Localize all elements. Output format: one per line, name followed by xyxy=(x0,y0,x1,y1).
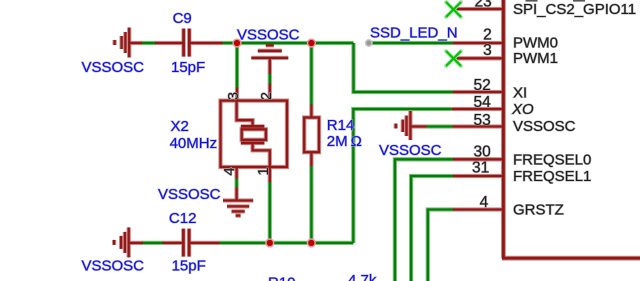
node junction crystal pin1 bottom (269.8,242.9) xyxy=(266,239,274,247)
svg-text:2M Ω: 2M Ω xyxy=(327,133,362,150)
svg-text:PWM0: PWM0 xyxy=(513,35,558,52)
svg-text:VSSOSC: VSSOSC xyxy=(82,59,145,76)
node junction R14 bottom (311.3,242.9) xyxy=(307,239,315,247)
svg-text:C9: C9 xyxy=(173,10,192,27)
no-connect X pin 23 xyxy=(446,2,461,17)
svg-text:4: 4 xyxy=(221,167,238,175)
svg-text:VSSOSC: VSSOSC xyxy=(82,258,145,275)
svg-text:1: 1 xyxy=(255,167,272,175)
svg-text:54: 54 xyxy=(474,94,492,111)
svg-text:30: 30 xyxy=(474,144,492,161)
svg-text:SSD_LED_N: SSD_LED_N xyxy=(370,25,458,42)
svg-text:R10: R10 xyxy=(268,274,296,281)
svg-text:15pF: 15pF xyxy=(172,258,206,275)
pin name above pin 23, cut off at top: visible underscore marks xyxy=(526,0,538,2)
svg-text:40MHz: 40MHz xyxy=(170,135,218,152)
node SSD_LED_N dangling wire end xyxy=(366,40,372,46)
svg-text:4: 4 xyxy=(480,194,489,211)
wire art core layer xyxy=(141,43,454,281)
svg-text:XO: XO xyxy=(511,101,534,118)
svg-text:31: 31 xyxy=(472,159,489,176)
svg-text:3: 3 xyxy=(225,92,242,100)
svg-text:3: 3 xyxy=(483,42,492,59)
node junction at R14 top (311.4,43) xyxy=(308,39,316,47)
svg-text:FREQSEL1: FREQSEL1 xyxy=(513,168,591,185)
no-connect X pin 3 xyxy=(446,51,461,66)
svg-text:GRSTZ: GRSTZ xyxy=(513,201,564,218)
svg-text:SPI_CS2_GPIO11: SPI_CS2_GPIO11 xyxy=(513,1,636,18)
svg-text:XI: XI xyxy=(513,85,527,102)
svg-text:PWM1: PWM1 xyxy=(513,50,558,67)
svg-text:15pF: 15pF xyxy=(171,59,205,76)
node junction at C9/crystal pin3 (237,43) xyxy=(233,39,241,47)
svg-text:23: 23 xyxy=(475,0,492,10)
svg-text:VSSOSC: VSSOSC xyxy=(158,186,221,203)
svg-text:4.7k: 4.7k xyxy=(348,272,377,281)
svg-text:VSSOSC: VSSOSC xyxy=(513,118,576,135)
svg-text:FREQSEL0: FREQSEL0 xyxy=(513,151,591,168)
svg-text:52: 52 xyxy=(474,77,491,94)
svg-text:VSSOSC: VSSOSC xyxy=(379,142,442,159)
svg-text:VSSOSC: VSSOSC xyxy=(237,27,300,44)
wire art halo layer xyxy=(141,43,454,281)
svg-text:2: 2 xyxy=(258,92,275,100)
svg-text:X2: X2 xyxy=(171,118,189,135)
svg-text:53: 53 xyxy=(474,112,491,129)
svg-text:R14: R14 xyxy=(327,117,355,134)
svg-text:C12: C12 xyxy=(169,210,197,227)
